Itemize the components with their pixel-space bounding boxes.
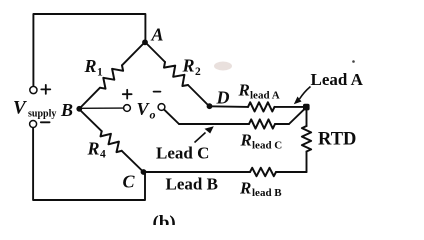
- svg-text:Lead B: Lead B: [166, 175, 218, 194]
- svg-text:V: V: [137, 99, 151, 119]
- wire top-left loop (V+ to A): [33, 14, 145, 86]
- svg-text:supply: supply: [28, 109, 56, 120]
- node B: [76, 106, 82, 112]
- wire Vo- terminal to Lead C: [164, 110, 179, 124]
- wire B to R4: [79, 109, 102, 131]
- plus sign Vo: [123, 90, 132, 99]
- wire A to R2: [145, 42, 165, 62]
- wire R2 to D: [188, 85, 209, 106]
- resistor R_lead A: [248, 102, 275, 111]
- minus sign Vo: [154, 91, 161, 93]
- svg-text:R: R: [182, 56, 195, 76]
- wire junction down to RTD: [306, 108, 308, 126]
- resistor R1: [100, 65, 123, 88]
- svg-text:A: A: [151, 25, 164, 45]
- wire bottom-left loop (V- to C): [33, 128, 145, 200]
- svg-text:lead C: lead C: [252, 140, 282, 152]
- wire B to Vo+ terminal: [80, 107, 123, 109]
- wire B to R1: [79, 88, 100, 109]
- resistor R_lead C: [249, 119, 275, 128]
- arrow Lead A: [294, 87, 311, 105]
- resistor RTD: [302, 126, 311, 152]
- svg-text:1: 1: [97, 67, 103, 79]
- stray dot above Lead A: [352, 60, 355, 63]
- smudge artifact right of R2: [214, 62, 232, 71]
- svg-text:B: B: [60, 100, 73, 120]
- wire R_lead A to junction: [275, 106, 306, 108]
- wire diagonal up to junction: [289, 108, 306, 124]
- svg-text:lead A: lead A: [250, 90, 280, 102]
- svg-text:R: R: [87, 139, 100, 159]
- wire Lead B to node C: [144, 171, 251, 173]
- svg-text:R: R: [238, 81, 250, 100]
- svg-text:R: R: [239, 179, 251, 198]
- resistor R2: [164, 62, 188, 86]
- svg-text:V: V: [13, 98, 27, 119]
- wire RTD to Lead B corner: [306, 152, 308, 173]
- node C: [141, 169, 147, 175]
- wire R4 to C: [122, 151, 144, 172]
- svg-text:4: 4: [100, 149, 106, 161]
- minus sign V supply: [41, 121, 50, 123]
- terminal circle V supply +: [30, 86, 37, 93]
- svg-text:D: D: [216, 88, 230, 108]
- wire R1 to A: [122, 42, 145, 65]
- svg-text:o: o: [150, 108, 156, 122]
- terminal circle V supply -: [30, 121, 37, 128]
- svg-text:Lead A: Lead A: [311, 70, 364, 89]
- svg-text:RTD: RTD: [318, 130, 356, 150]
- svg-text:R: R: [84, 56, 97, 76]
- plus sign V supply: [41, 85, 50, 94]
- node D: [207, 103, 213, 109]
- svg-text:Lead C: Lead C: [156, 144, 209, 163]
- svg-text:lead B: lead B: [252, 187, 282, 199]
- svg-text:(b): (b): [153, 213, 176, 226]
- svg-text:C: C: [123, 172, 136, 192]
- svg-text:R: R: [240, 131, 252, 150]
- wire Lead C horizontal: [179, 123, 249, 125]
- wire D to R_lead A: [210, 105, 248, 108]
- arrow Lead C: [195, 126, 214, 142]
- terminal circle Vo -: [158, 104, 165, 111]
- wire R_lead C to diagonal: [275, 123, 289, 125]
- resistor R4: [101, 131, 122, 152]
- node A: [142, 39, 148, 45]
- svg-text:2: 2: [195, 66, 201, 78]
- resistor R_lead B: [250, 168, 276, 176]
- wire Lead B right segment: [276, 171, 307, 173]
- terminal circle Vo +: [124, 105, 131, 112]
- junction node (Lead A / RTD): [303, 104, 310, 111]
